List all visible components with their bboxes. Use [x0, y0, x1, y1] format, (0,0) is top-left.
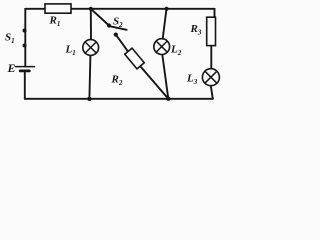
- svg-text:E: E: [7, 61, 16, 75]
